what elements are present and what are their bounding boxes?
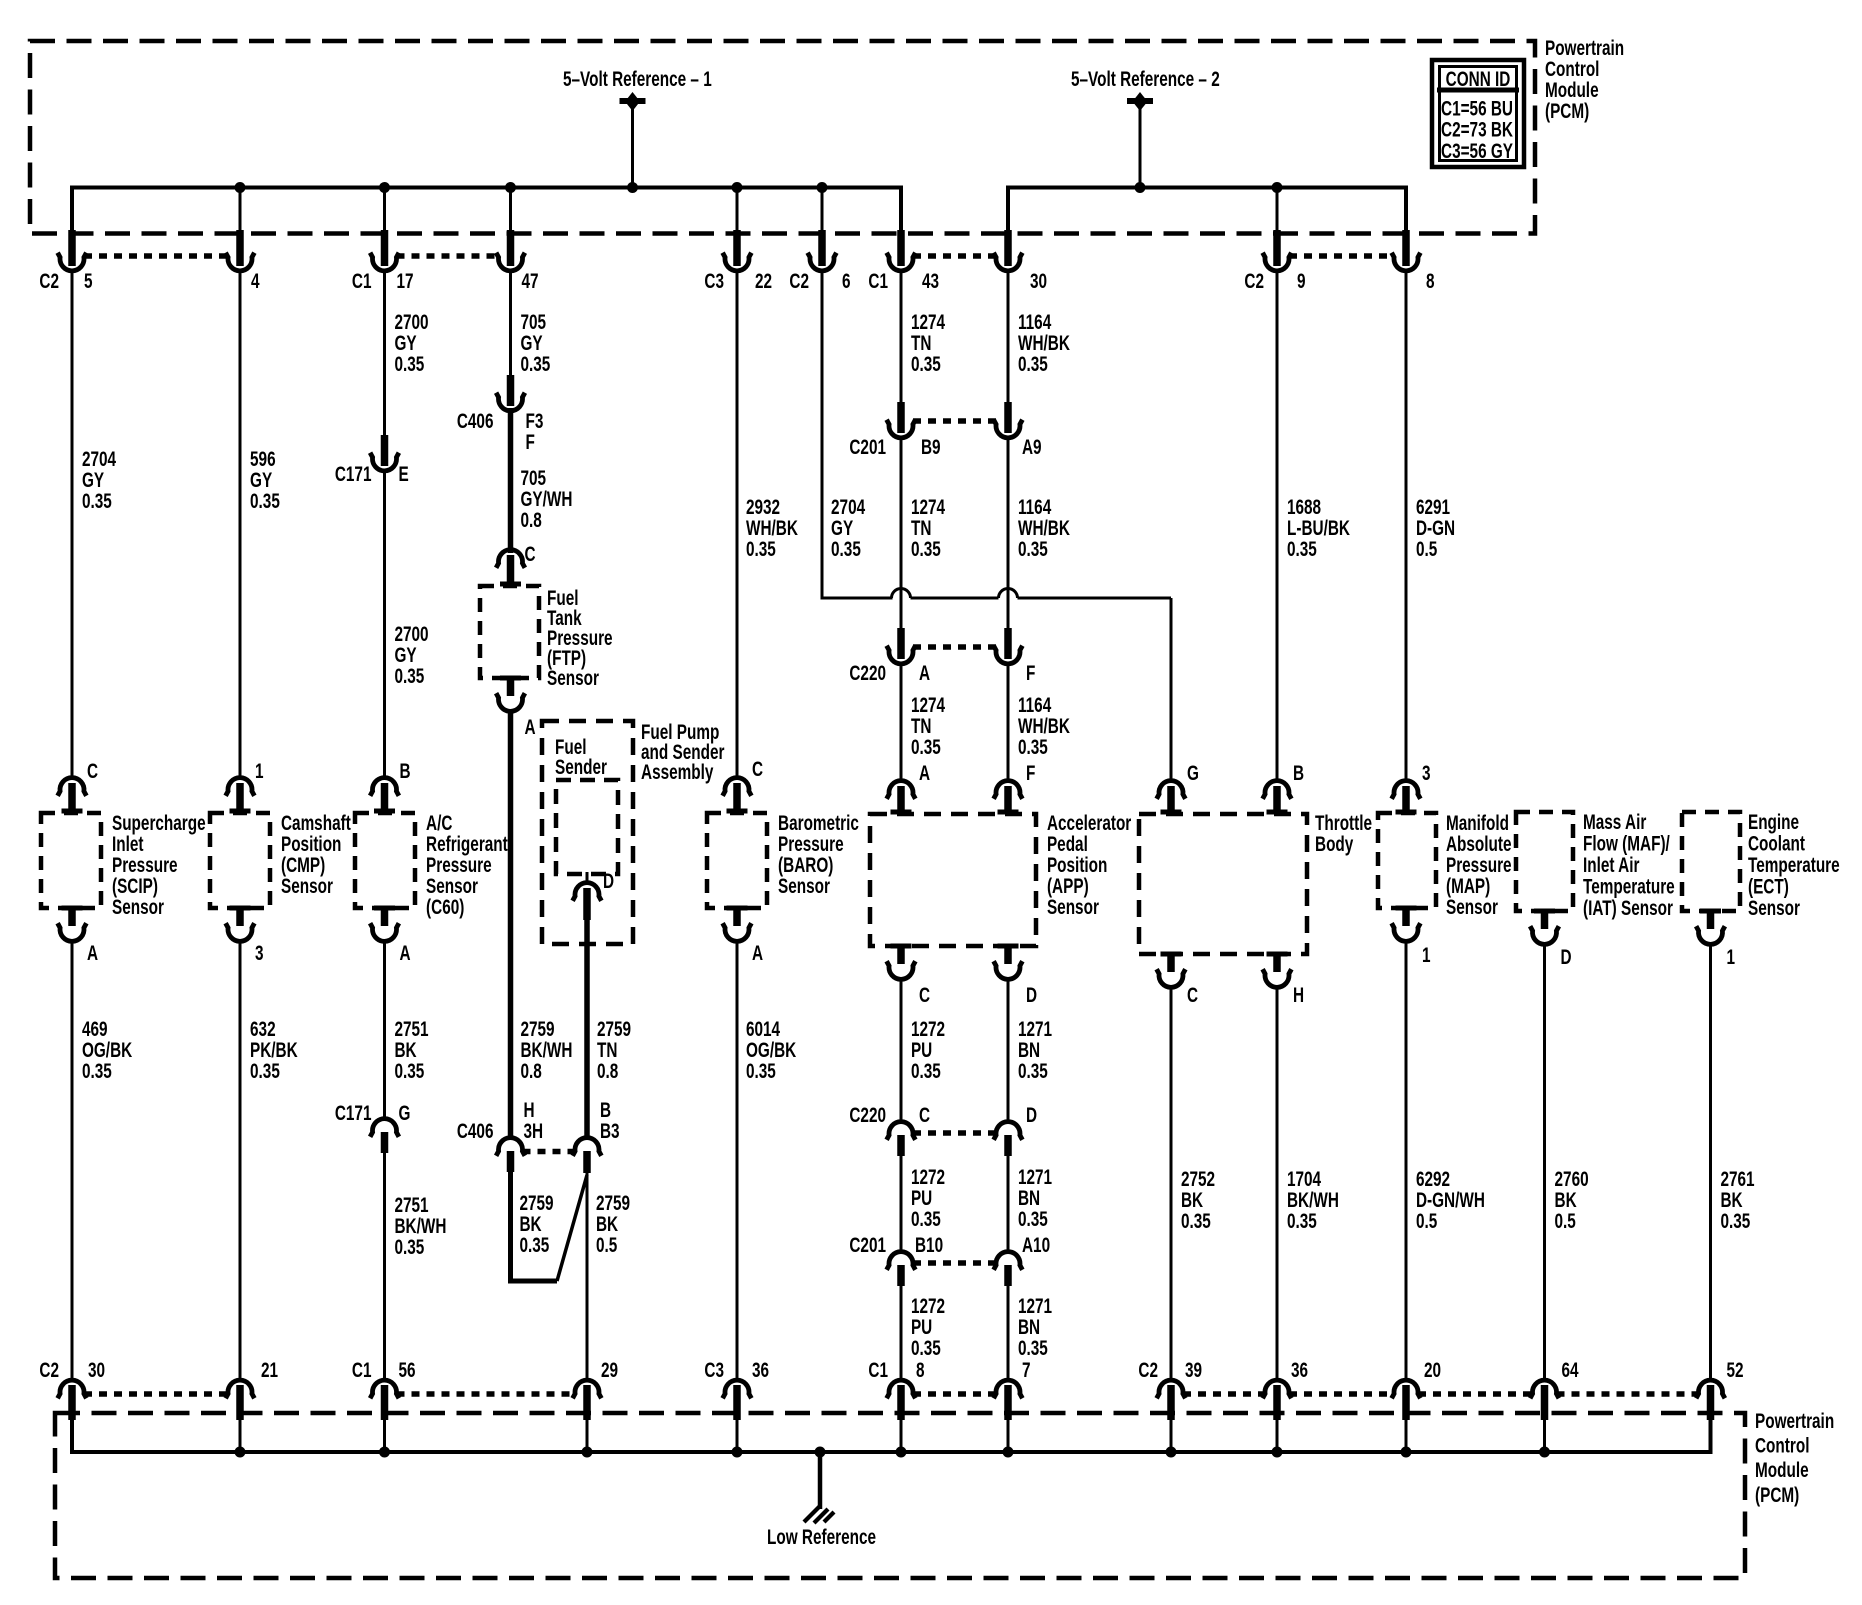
MAF label <box>1583 810 1675 920</box>
pin A label BARO <box>752 941 763 965</box>
wire 1272 PU a <box>900 978 903 1123</box>
wire 1704 BK/WH col10 <box>1276 986 1279 1381</box>
CMP top pin <box>226 778 255 814</box>
connector C406 pin H <box>457 1098 543 1172</box>
APP top pin F <box>994 781 1023 815</box>
svg-text:0.35: 0.35 <box>1287 537 1317 561</box>
svg-text:43: 43 <box>922 269 939 293</box>
svg-text:(PCM): (PCM) <box>1545 99 1589 123</box>
throttle top pin B <box>1263 781 1292 815</box>
svg-text:3: 3 <box>255 941 264 965</box>
pin C label SCIP <box>87 759 98 783</box>
label 2704 GY 0.35 col1 <box>82 447 117 513</box>
junction on 5V bus 1 at x=240 <box>235 182 246 193</box>
pin C label APP <box>919 983 930 1007</box>
svg-text:C: C <box>919 983 930 1007</box>
svg-text:A: A <box>525 715 536 739</box>
svg-text:0.35: 0.35 <box>831 537 861 561</box>
CONN ID box <box>1432 60 1524 167</box>
svg-text:20: 20 <box>1424 1358 1441 1382</box>
wire 6014 OG/BK col5 <box>736 940 739 1381</box>
throttle body label <box>1315 811 1372 856</box>
pin F label APP <box>1026 761 1035 785</box>
svg-text:0.35: 0.35 <box>1018 537 1048 561</box>
Low Reference label <box>767 1525 876 1549</box>
wire 1271 BN a <box>1007 978 1010 1123</box>
svg-text:1: 1 <box>1727 945 1736 969</box>
svg-text:Inlet Air: Inlet Air <box>1583 853 1639 877</box>
wire 1271 BN b <box>1007 1154 1010 1253</box>
wire 469 OG/BK col1 <box>71 940 74 1381</box>
connector C220 pin A <box>849 628 930 685</box>
junction on 5V bus 2 at x=1277 <box>1272 182 1283 193</box>
wire 2700 GY upper col3 <box>383 270 386 437</box>
CONN ID title <box>1446 67 1511 91</box>
svg-text:C1: C1 <box>352 269 372 293</box>
wire 705 GY col4 <box>509 270 512 377</box>
pin B label throttle <box>1293 761 1304 785</box>
bus drop wire x=822 <box>821 188 824 234</box>
label 2759 BK 0.5 <box>596 1191 630 1257</box>
label 6014 OG/BK 0.35 <box>746 1017 797 1083</box>
svg-text:Powertrain: Powertrain <box>1755 1409 1834 1433</box>
svg-text:B: B <box>400 759 411 783</box>
PCM pin C1 43 (top row) <box>868 230 939 293</box>
label 596 GY 0.35 <box>250 447 280 513</box>
svg-text:0.35: 0.35 <box>519 1233 549 1257</box>
svg-text:0.35: 0.35 <box>1018 1207 1048 1231</box>
svg-text:G: G <box>399 1101 411 1125</box>
dotted link pins 36-20 <box>1289 1391 1394 1397</box>
svg-text:B3: B3 <box>600 1119 620 1143</box>
label 2752 BK 0.35 <box>1181 1167 1215 1233</box>
wire 1164 WH/BK c <box>1007 663 1010 779</box>
svg-text:5–Volt Reference – 2: 5–Volt Reference – 2 <box>1071 67 1220 91</box>
dotted link pins 9-8 <box>1289 253 1394 259</box>
svg-text:0.35: 0.35 <box>1181 1209 1211 1233</box>
svg-text:(C60): (C60) <box>426 895 464 919</box>
pin 1 label CMP <box>255 759 264 783</box>
SCIP sensor box <box>41 813 101 908</box>
PCM pin C1 56 (bottom row) <box>352 1358 416 1452</box>
label 2761 BK 0.35 <box>1720 1167 1754 1233</box>
label 705 GY 0.35 <box>520 310 550 376</box>
svg-text:C: C <box>919 1103 930 1127</box>
bus drop wire x=384.5 <box>383 188 386 234</box>
junction on low ref bus at x=1008 <box>1003 1447 1014 1458</box>
PCM top label <box>1545 36 1624 123</box>
svg-text:8: 8 <box>1426 269 1435 293</box>
bus drop wire x=240 <box>239 188 242 234</box>
svg-text:C3: C3 <box>704 1358 724 1382</box>
junction on 5V bus 1 at x=510.5 <box>505 182 516 193</box>
label 705 GY/WH 0.8 <box>520 466 572 532</box>
junction on low ref bus at x=1406 <box>1401 1447 1412 1458</box>
svg-text:0.35: 0.35 <box>394 664 424 688</box>
PCM pin 29 (bottom row) <box>573 1358 618 1452</box>
SCIP bottom pin <box>58 906 87 942</box>
wire 2932 WH/BK col5 <box>736 270 739 779</box>
svg-text:D: D <box>1561 945 1572 969</box>
junction on low ref bus at x=1544.5 <box>1539 1447 1550 1458</box>
label 2704 GY 0.35 col6 <box>831 495 866 561</box>
junction on low ref bus at x=1171 <box>1166 1447 1177 1458</box>
wire 1274 TN a <box>900 270 903 404</box>
wire 2759 BK 0.5 col4b <box>586 1173 589 1381</box>
junction on low ref bus at x=1277 <box>1272 1447 1283 1458</box>
svg-text:0.35: 0.35 <box>911 1336 941 1360</box>
MAP bottom pin 1 <box>1392 906 1421 942</box>
svg-text:9: 9 <box>1297 269 1306 293</box>
svg-text:5: 5 <box>84 269 93 293</box>
junction on low ref bus at x=820 <box>815 1447 826 1458</box>
pin C label FTP <box>525 542 536 566</box>
label 2751 BK 0.35 <box>394 1017 428 1083</box>
svg-text:0.35: 0.35 <box>82 1059 112 1083</box>
pin H label throttle <box>1293 983 1304 1007</box>
svg-text:0.35: 0.35 <box>911 1207 941 1231</box>
throttle bottom pin C <box>1157 952 1186 988</box>
svg-text:Module: Module <box>1755 1458 1809 1482</box>
MAP label <box>1446 811 1512 919</box>
PCM bottom label <box>1755 1409 1834 1507</box>
svg-text:0.35: 0.35 <box>394 1059 424 1083</box>
junction on low ref bus at x=240 <box>235 1447 246 1458</box>
A/C label <box>426 811 508 919</box>
svg-text:C2: C2 <box>39 269 59 293</box>
label 2759 BK 0.35 <box>519 1191 553 1257</box>
svg-text:0.35: 0.35 <box>394 352 424 376</box>
connector C171 pin G <box>335 1101 411 1153</box>
svg-text:D: D <box>1026 983 1037 1007</box>
BARO top pin <box>723 778 752 814</box>
connector C220 pin D <box>994 1103 1037 1156</box>
junction on 5V bus 1 at x=822 <box>817 182 828 193</box>
connector C201 pin B9 <box>849 402 940 459</box>
svg-text:Sensor: Sensor <box>1748 896 1800 920</box>
svg-text:Body: Body <box>1315 832 1354 856</box>
label 2700 GY 0.35 upper <box>394 310 428 376</box>
svg-text:A9: A9 <box>1022 435 1042 459</box>
svg-text:C: C <box>87 759 98 783</box>
label 1272 PU 0.35 a <box>911 1017 945 1083</box>
label 2759 BK/WH 0.8 <box>520 1017 572 1083</box>
svg-text:6: 6 <box>842 269 851 293</box>
wire 1688 L-BU/BK col10 <box>1276 270 1279 779</box>
label 1704 BK/WH 0.35 <box>1287 1167 1339 1233</box>
pin A label FTP <box>525 715 536 739</box>
PCM pin 8 (top row) <box>1392 230 1435 293</box>
wire 1164 WH/BK b <box>1007 437 1010 630</box>
fuel pump and sender assembly box <box>542 721 633 944</box>
wire 2761 BK col13 <box>1709 943 1712 1381</box>
wire 1271 BN c <box>1007 1284 1010 1381</box>
junction on low ref bus at x=901 <box>896 1447 907 1458</box>
svg-text:0.8: 0.8 <box>520 1059 541 1083</box>
svg-text:(PCM): (PCM) <box>1755 1482 1799 1506</box>
label 469 OG/BK 0.35 <box>82 1017 133 1083</box>
PCM pin 7 (bottom row) <box>994 1358 1031 1452</box>
fuel pump assembly label <box>641 720 724 784</box>
svg-text:47: 47 <box>522 269 539 293</box>
dotted link C201 B9-A9 <box>913 418 996 424</box>
svg-text:Sensor: Sensor <box>1047 895 1099 919</box>
wire 1274 TN b <box>900 437 903 630</box>
svg-text:C220: C220 <box>849 661 886 685</box>
label 2759 TN 0.8 <box>597 1017 631 1083</box>
pin A label APP <box>919 761 930 785</box>
svg-text:C: C <box>525 542 536 566</box>
APP bottom pin D <box>994 944 1023 980</box>
svg-text:C1: C1 <box>868 269 888 293</box>
svg-text:0.35: 0.35 <box>1018 352 1048 376</box>
PCM top dashed box <box>30 41 1535 234</box>
5V ref 1 bus wire <box>72 188 901 234</box>
svg-text:Sensor: Sensor <box>547 666 599 690</box>
svg-text:Engine: Engine <box>1748 810 1799 834</box>
svg-text:0.35: 0.35 <box>911 735 941 759</box>
CMP label <box>281 811 351 898</box>
pin D label APP <box>1026 983 1037 1007</box>
svg-text:F: F <box>1026 761 1035 785</box>
pin G label throttle <box>1187 761 1199 785</box>
junction on 5V bus 1 at x=632.5 <box>627 182 638 193</box>
wire 1164 WH/BK a <box>1007 270 1010 404</box>
svg-text:Sensor: Sensor <box>112 895 164 919</box>
PCM bottom dashed box <box>55 1413 1745 1578</box>
pin C label throttle <box>1187 983 1198 1007</box>
svg-text:0.35: 0.35 <box>746 1059 776 1083</box>
fuel sender label <box>555 735 607 779</box>
FTP top pin <box>496 550 525 587</box>
label 632 PK/BK 0.35 <box>250 1017 298 1083</box>
PCM pin 64 (bottom row) <box>1530 1358 1579 1452</box>
dotted link C201 B10-A10 <box>913 1260 996 1266</box>
PCM pin C3 36 (bottom row) <box>704 1358 769 1452</box>
label 6292 D-GN/WH 0.5 <box>1416 1167 1485 1233</box>
APP bottom pin C <box>887 944 916 980</box>
svg-text:C406: C406 <box>457 1119 494 1143</box>
svg-text:1: 1 <box>255 759 264 783</box>
svg-text:36: 36 <box>1291 1358 1308 1382</box>
svg-text:8: 8 <box>916 1358 925 1382</box>
svg-text:3: 3 <box>1422 761 1431 785</box>
throttle body box <box>1139 814 1307 954</box>
ECT label <box>1748 810 1840 920</box>
pin D label MAF <box>1561 945 1572 969</box>
dotted link pins 5-4 <box>84 253 228 259</box>
svg-text:C2: C2 <box>789 269 809 293</box>
label 2751 BK/WH 0.35 <box>394 1193 446 1259</box>
svg-text:C3=56 GY: C3=56 GY <box>1441 138 1513 162</box>
svg-text:64: 64 <box>1561 1358 1579 1382</box>
wire 6292 D-GN/WH col11 <box>1405 940 1408 1381</box>
label 2760 BK 0.5 <box>1555 1167 1589 1233</box>
junction on 5V bus 2 at x=1140 <box>1135 182 1146 193</box>
connector C406 pin B3 <box>573 1098 620 1173</box>
svg-text:C2: C2 <box>39 1358 59 1382</box>
svg-text:22: 22 <box>755 269 772 293</box>
label 1164 WH/BK 0.35 b <box>1018 495 1071 561</box>
svg-text:Low Reference: Low Reference <box>767 1525 876 1549</box>
svg-text:0.35: 0.35 <box>911 1059 941 1083</box>
junction on 5V bus 1 at x=737 <box>732 182 743 193</box>
svg-text:52: 52 <box>1727 1358 1744 1382</box>
svg-text:C201: C201 <box>849 1233 886 1257</box>
MAP sensor box <box>1378 813 1436 908</box>
wire 596 GY col2 <box>239 270 242 779</box>
CMP bottom pin <box>226 906 255 942</box>
wire 2751 BK/WH col3 <box>383 1151 386 1381</box>
dotted link pins 20-64 <box>1418 1391 1533 1397</box>
svg-text:0.35: 0.35 <box>520 352 550 376</box>
svg-text:21: 21 <box>261 1358 278 1382</box>
bus drop wire x=510.5 <box>509 188 512 234</box>
wire 1274 TN c <box>900 663 903 779</box>
PCM pin 52 (bottom row) <box>1696 1358 1743 1452</box>
svg-text:(IAT) Sensor: (IAT) Sensor <box>1583 896 1673 920</box>
wire 2700 GY lower col3 <box>383 470 386 779</box>
svg-text:0.35: 0.35 <box>911 352 941 376</box>
PCM pin C2 30 (bottom row) <box>39 1358 105 1452</box>
svg-text:0.35: 0.35 <box>1018 1336 1048 1360</box>
svg-text:Assembly: Assembly <box>641 760 714 784</box>
svg-text:Mass Air: Mass Air <box>1583 810 1646 834</box>
FTP bottom pin <box>496 676 525 712</box>
label 6291 D-GN 0.5 <box>1416 495 1455 561</box>
svg-text:0.35: 0.35 <box>250 1059 280 1083</box>
svg-text:A: A <box>919 661 930 685</box>
BARO sensor box <box>707 813 767 908</box>
PCM pin C1 8 (bottom row) <box>868 1358 924 1452</box>
wire 1272 PU c <box>900 1284 903 1381</box>
svg-text:C1: C1 <box>352 1358 372 1382</box>
svg-text:C: C <box>1187 983 1198 1007</box>
APP top pin A <box>887 781 916 815</box>
wire 632 PK/BK col2 <box>239 940 242 1381</box>
PCM pin C2 5 (top row) <box>39 230 92 293</box>
pin A label SCIP <box>87 941 98 965</box>
junction on low ref bus at x=587 <box>582 1447 593 1458</box>
label 1271 BN 0.35 a <box>1018 1017 1052 1083</box>
PCM pin C2 39 (bottom row) <box>1138 1358 1202 1452</box>
PCM pin C2 6 (top row) <box>789 230 850 293</box>
svg-text:Sensor: Sensor <box>1446 895 1498 919</box>
svg-text:0.5: 0.5 <box>1555 1209 1576 1233</box>
svg-text:G: G <box>1187 761 1199 785</box>
svg-text:A: A <box>87 941 98 965</box>
connector C201 pin B10 <box>849 1233 943 1286</box>
A/C refrigerant sensor box <box>355 813 415 908</box>
connector C171 pin E <box>335 435 409 486</box>
dotted link C220 A-F <box>913 644 996 650</box>
5-Volt Reference - 2 label <box>1071 67 1220 91</box>
svg-text:C2: C2 <box>1138 1358 1158 1382</box>
low reference bus <box>72 1420 1711 1452</box>
5V ref 2 bus wire <box>1008 188 1406 234</box>
svg-text:0.35: 0.35 <box>1287 1209 1317 1233</box>
svg-text:E: E <box>399 462 409 486</box>
svg-text:D: D <box>1026 1103 1037 1127</box>
svg-text:C3: C3 <box>704 269 724 293</box>
MAF sensor box <box>1516 812 1573 911</box>
label 2932 WH/BK 0.35 <box>746 495 799 561</box>
PCM pin C1 17 (top row) <box>352 230 414 293</box>
label 1688 L-BU/BK 0.35 <box>1287 495 1351 561</box>
svg-text:0.35: 0.35 <box>911 537 941 561</box>
BARO bottom pin <box>723 906 752 942</box>
svg-text:H: H <box>1293 983 1304 1007</box>
fuel sender pin D <box>573 869 614 920</box>
svg-text:0.8: 0.8 <box>597 1059 618 1083</box>
svg-text:Sender: Sender <box>555 755 607 779</box>
svg-text:A: A <box>919 761 930 785</box>
wire 2760 BK col12 <box>1543 943 1546 1381</box>
dotted link C220 C-D <box>913 1130 996 1136</box>
label 1274 TN 0.35 c <box>911 693 946 759</box>
wire 1272 PU b <box>900 1154 903 1253</box>
svg-text:30: 30 <box>1030 269 1047 293</box>
label 1272 PU 0.35 c <box>911 1294 945 1360</box>
bus drop wire pin 9 <box>1276 188 1279 234</box>
svg-text:0.8: 0.8 <box>520 508 541 532</box>
wire 2704 GY col1 <box>71 270 74 779</box>
wire 2759 TN col4b <box>584 918 590 1139</box>
svg-text:5–Volt Reference – 1: 5–Volt Reference – 1 <box>563 67 712 91</box>
A/C bottom pin <box>370 906 399 942</box>
connector C406 pin F3 <box>457 375 544 454</box>
ground stem <box>818 1452 823 1509</box>
pin A label A/C <box>400 941 411 965</box>
svg-text:Flow (MAF)/: Flow (MAF)/ <box>1583 831 1670 855</box>
svg-text:Temperature: Temperature <box>1583 874 1675 898</box>
pin 3 label CMP <box>255 941 264 965</box>
pin B label A/C <box>400 759 411 783</box>
pin 1 label MAP <box>1422 943 1431 967</box>
svg-text:F: F <box>526 430 535 454</box>
svg-text:0.35: 0.35 <box>394 1235 424 1259</box>
svg-text:30: 30 <box>88 1358 105 1382</box>
dotted link pins 39-36 <box>1183 1391 1265 1397</box>
throttle top pin G <box>1157 781 1186 815</box>
pin 1 label ECT <box>1727 945 1736 969</box>
svg-text:B9: B9 <box>921 435 941 459</box>
connector C220 pin F <box>994 628 1036 685</box>
wire 2751 BK col3 <box>383 940 386 1120</box>
svg-text:0.35: 0.35 <box>1018 1059 1048 1083</box>
MAF bottom pin D <box>1530 909 1559 945</box>
svg-text:C171: C171 <box>335 462 372 486</box>
PCM pin 20 (bottom row) <box>1392 1358 1441 1452</box>
PCM pin 30 (top row) <box>994 230 1047 293</box>
svg-text:Sensor: Sensor <box>778 874 830 898</box>
CMP sensor box <box>210 813 270 908</box>
svg-text:B10: B10 <box>915 1233 943 1257</box>
SCIP top pin <box>58 778 87 814</box>
PCM pin C3 22 (top row) <box>704 230 772 293</box>
svg-text:0.35: 0.35 <box>82 489 112 513</box>
label 1272 PU 0.35 b <box>911 1165 945 1231</box>
wire 6291 D-GN col11 <box>1405 270 1408 779</box>
dotted link pins 56-29 <box>397 1391 576 1397</box>
wire 2752 BK col9 <box>1170 986 1173 1381</box>
svg-text:(ECT): (ECT) <box>1748 874 1789 898</box>
PCM pin C2 9 (top row) <box>1244 230 1305 293</box>
PCM pin 4 (top row) <box>226 230 261 293</box>
junction on 5V bus 1 at x=384.5 <box>379 182 390 193</box>
label 1164 WH/BK 0.35 a <box>1018 310 1071 376</box>
wire down to throttle G <box>1170 598 1173 779</box>
